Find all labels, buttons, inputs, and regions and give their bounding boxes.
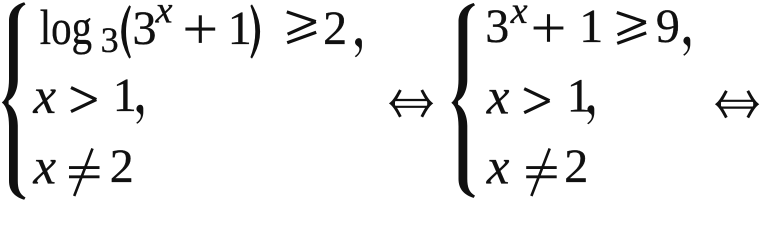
svg-text:x: x	[486, 70, 510, 126]
sys1 line1: open paren	[121, 5, 131, 58]
sys1 line2: greater-than	[71, 88, 96, 100]
sys2 line1: slanted geq	[617, 13, 646, 23]
svg-text:1: 1	[113, 69, 137, 122]
svg-text:1: 1	[567, 70, 591, 123]
svg-text:x: x	[32, 140, 56, 196]
svg-text:x: x	[155, 0, 173, 32]
system 2 brace	[451, 3, 475, 198]
svg-text:1: 1	[228, 2, 252, 55]
svg-text:1: 1	[579, 0, 603, 53]
svg-text:x: x	[486, 140, 510, 196]
iff arrow 1	[394, 99, 428, 101]
sys2 line1: comma	[683, 37, 690, 56]
svg-text:x: x	[510, 0, 528, 32]
sys2 line3: not-equal	[526, 166, 557, 169]
sys1 line3: not-equal	[69, 166, 100, 169]
system 1 brace	[2, 2, 26, 200]
svg-text:log: log	[40, 0, 92, 55]
sys1 line1: comma	[355, 38, 362, 57]
sys2 line2: comma	[587, 105, 594, 124]
svg-text:x: x	[32, 69, 56, 125]
svg-text:3: 3	[101, 20, 119, 60]
sys2 line2: greater-than	[524, 89, 549, 101]
svg-text:3: 3	[485, 0, 509, 53]
svg-text:2: 2	[110, 140, 134, 193]
sys1 line1: plus	[185, 28, 215, 31]
sys2 line1: plus	[534, 26, 564, 29]
iff arrow 2	[720, 100, 754, 102]
sys1 line1: slanted geq	[287, 12, 316, 22]
svg-text:2: 2	[323, 2, 347, 55]
sys1 line2: comma	[136, 105, 143, 124]
svg-text:9: 9	[656, 0, 680, 53]
svg-text:2: 2	[564, 140, 588, 193]
sys1 line1: close paren	[250, 4, 260, 58]
svg-text:3: 3	[133, 2, 157, 55]
